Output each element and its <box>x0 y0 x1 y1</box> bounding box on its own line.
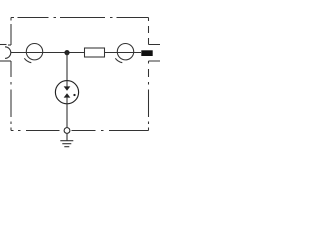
wire: signal line left connector to output termination <box>11 52 141 54</box>
resistor R1 <box>85 48 105 57</box>
gas discharge tube F1 <box>55 81 78 104</box>
ground (earth symbol) <box>60 141 73 147</box>
device enclosure boundary (dash-dot box) <box>11 18 149 131</box>
left <box>10 18 12 131</box>
top <box>11 17 149 19</box>
coax output connector J2 (right, black termination body) <box>141 45 160 62</box>
earth node (open circle on enclosure bottom) <box>64 128 70 134</box>
bottom <box>11 130 149 132</box>
coaxial indicator (right circle with shield arc) <box>115 44 133 63</box>
wire: node A down to gas discharge tube F1 <box>66 53 68 87</box>
coaxial indicator (left circle with shield arc) <box>24 44 42 63</box>
wire: earth node to ground <box>66 134 68 141</box>
right <box>148 18 150 131</box>
node A (junction dot) <box>64 50 69 55</box>
coax input connector J1 (left, female socket) <box>0 45 11 62</box>
wire: F1 to earth node <box>66 104 68 128</box>
